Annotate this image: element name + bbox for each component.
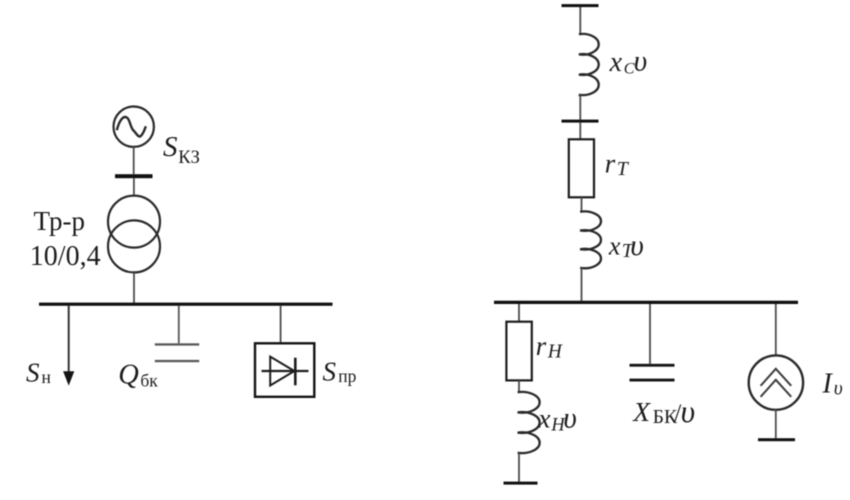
- svg-text:S: S: [323, 357, 337, 387]
- svg-text:x: x: [608, 231, 621, 260]
- svg-text:I: I: [822, 368, 834, 399]
- svg-text:T: T: [617, 158, 630, 180]
- svg-text:υ: υ: [681, 394, 695, 429]
- svg-text:н: н: [42, 367, 51, 387]
- svg-text:υ: υ: [630, 230, 644, 262]
- svg-text:υ: υ: [634, 46, 648, 78]
- svg-text:r: r: [536, 331, 547, 361]
- svg-text:H: H: [547, 342, 563, 363]
- svg-text:10/0,4: 10/0,4: [30, 241, 101, 272]
- svg-text:бк: бк: [140, 371, 158, 391]
- svg-text:Q: Q: [118, 360, 139, 391]
- svg-text:S: S: [26, 358, 40, 388]
- svg-text:x: x: [609, 47, 623, 78]
- svg-text:Тр-р: Тр-р: [34, 206, 85, 236]
- svg-text:υ: υ: [563, 403, 577, 435]
- svg-text:X: X: [632, 396, 651, 427]
- svg-text:x: x: [537, 402, 550, 433]
- svg-text:пр: пр: [338, 366, 356, 386]
- svg-text:КЗ: КЗ: [178, 148, 200, 168]
- svg-text:υ: υ: [834, 378, 843, 399]
- svg-text:r: r: [605, 149, 616, 179]
- svg-text:S: S: [163, 131, 178, 163]
